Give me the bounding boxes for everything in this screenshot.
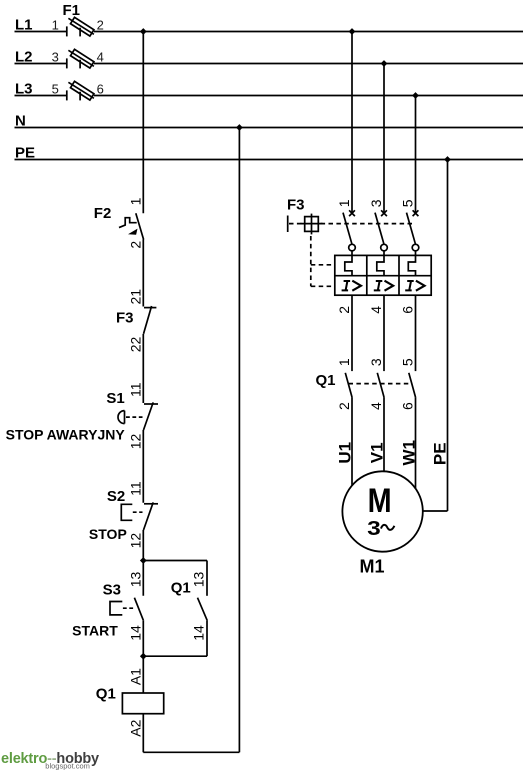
svg-text:12: 12 <box>127 533 143 549</box>
svg-text:13: 13 <box>191 572 207 588</box>
svg-text:A2: A2 <box>127 719 143 736</box>
svg-text:2: 2 <box>336 306 352 314</box>
svg-text:3: 3 <box>368 358 384 366</box>
svg-text:Q1: Q1 <box>96 686 116 703</box>
svg-text:22: 22 <box>127 337 143 353</box>
svg-text:W1: W1 <box>400 440 419 466</box>
svg-text:3: 3 <box>52 49 59 64</box>
svg-text:3: 3 <box>368 199 384 207</box>
svg-text:5: 5 <box>52 81 59 96</box>
svg-text:L3: L3 <box>15 80 33 97</box>
svg-text:S1: S1 <box>106 390 124 407</box>
svg-text:S2: S2 <box>107 488 125 505</box>
svg-text:6: 6 <box>400 402 416 410</box>
svg-text:PE: PE <box>431 442 450 465</box>
svg-text:5: 5 <box>400 358 416 366</box>
svg-text:STOP: STOP <box>89 526 127 542</box>
svg-text:14: 14 <box>191 625 207 641</box>
svg-text:6: 6 <box>97 81 104 96</box>
svg-text:3: 3 <box>367 518 381 540</box>
svg-text:2: 2 <box>127 241 143 249</box>
svg-text:1: 1 <box>336 199 352 207</box>
svg-text:A1: A1 <box>127 668 143 685</box>
svg-text:11: 11 <box>127 481 143 496</box>
svg-text:F3: F3 <box>287 196 305 213</box>
svg-text:13: 13 <box>127 572 143 588</box>
svg-text:START: START <box>72 623 118 639</box>
svg-text:4: 4 <box>97 49 104 64</box>
svg-text:6: 6 <box>400 306 416 314</box>
svg-text:21: 21 <box>127 289 143 305</box>
svg-text:Q1: Q1 <box>171 580 191 597</box>
svg-text:4: 4 <box>368 402 384 410</box>
svg-text:V1: V1 <box>367 442 386 463</box>
svg-text:STOP AWARYJNY: STOP AWARYJNY <box>6 427 126 443</box>
svg-text:L2: L2 <box>15 48 33 65</box>
svg-text:12: 12 <box>127 434 143 450</box>
svg-text:11: 11 <box>127 382 143 397</box>
svg-text:1: 1 <box>336 358 352 366</box>
svg-text:Q1: Q1 <box>315 372 335 389</box>
svg-text:M1: M1 <box>360 557 385 577</box>
svg-text:U1: U1 <box>335 442 354 464</box>
svg-text:M: M <box>368 482 392 520</box>
svg-text:2: 2 <box>336 402 352 410</box>
svg-text:2: 2 <box>97 17 104 32</box>
svg-text:5: 5 <box>400 199 416 207</box>
svg-text:4: 4 <box>368 306 384 314</box>
svg-text:1: 1 <box>127 197 143 205</box>
svg-text:F1: F1 <box>63 2 81 19</box>
svg-text:14: 14 <box>127 625 143 641</box>
svg-text:PE: PE <box>15 144 35 161</box>
svg-text:L1: L1 <box>15 16 33 33</box>
svg-text:F2: F2 <box>94 205 112 222</box>
svg-text:N: N <box>15 112 26 129</box>
svg-text:S3: S3 <box>103 581 121 598</box>
svg-text:blogspot.com: blogspot.com <box>45 762 90 771</box>
svg-text:F3: F3 <box>116 309 134 326</box>
svg-text:1: 1 <box>52 17 59 32</box>
